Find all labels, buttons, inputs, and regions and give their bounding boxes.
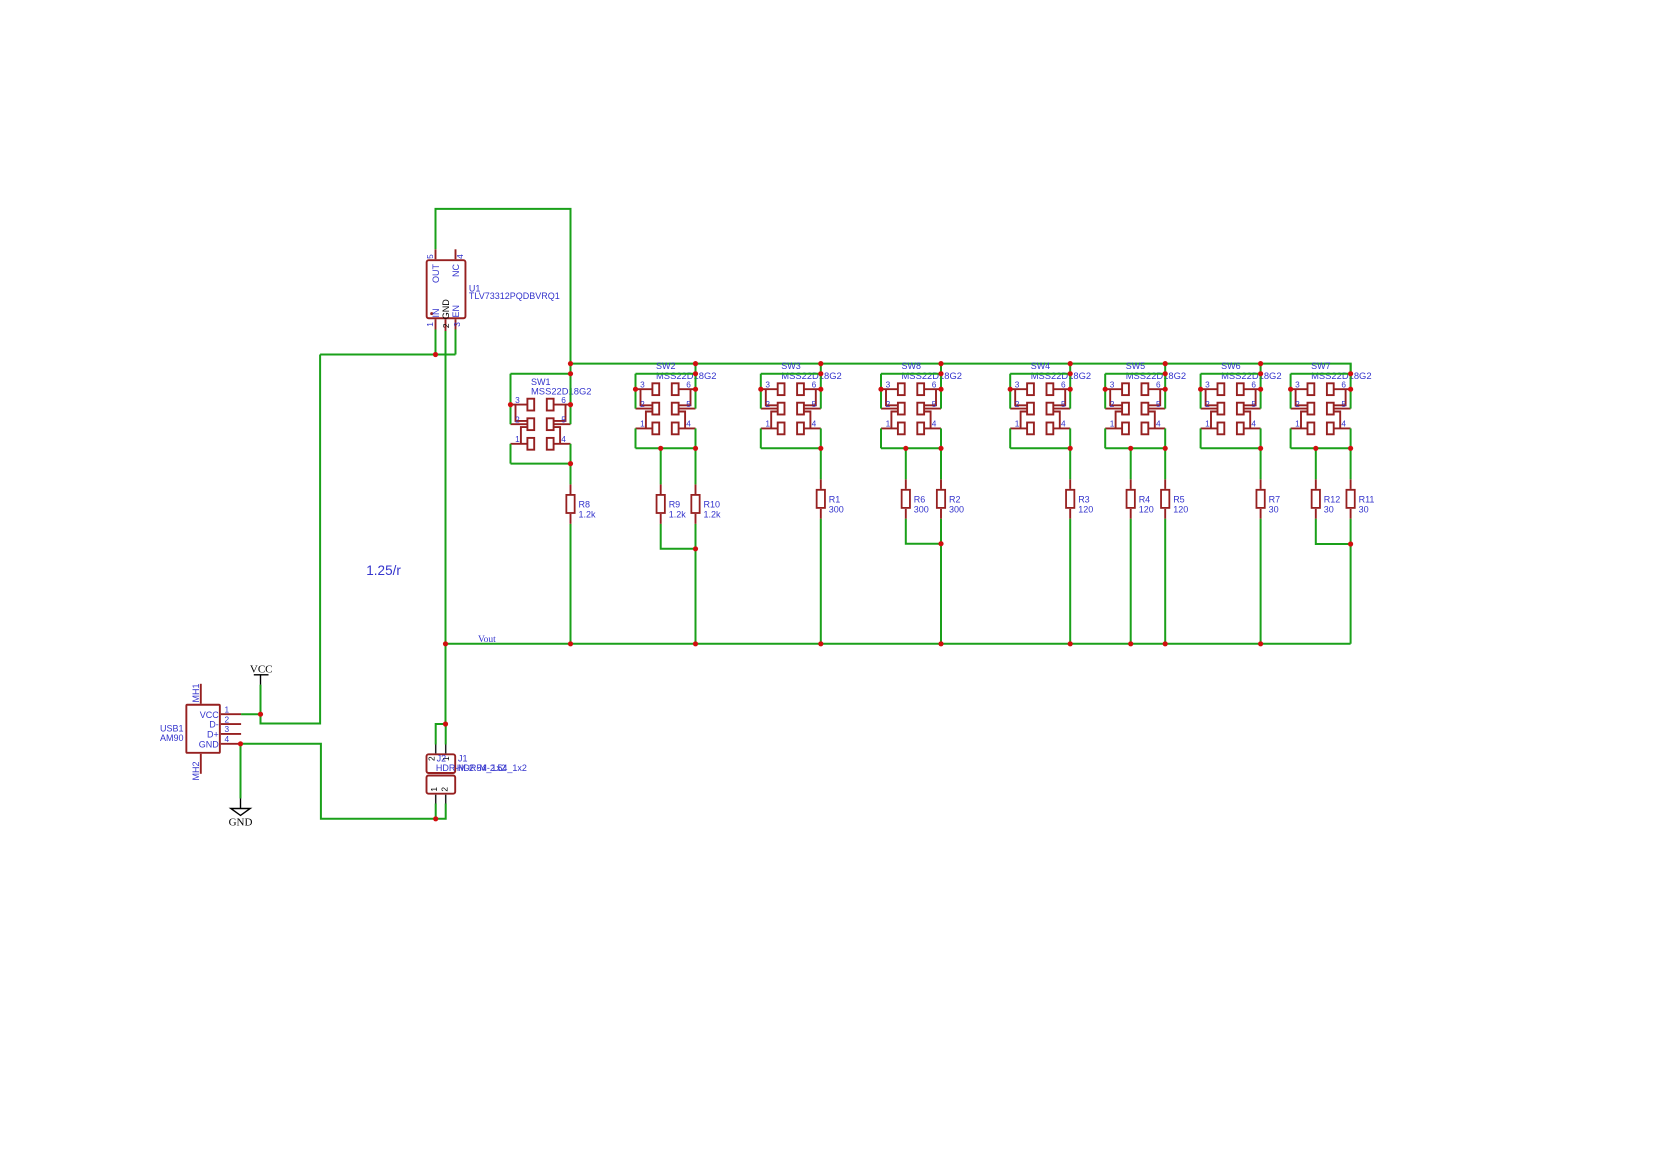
wire SW3 to R1 [820,448,822,479]
wire VCC stem [260,685,262,715]
wire SW1 right rail [570,374,572,425]
svg-text:MSS22D18G2: MSS22D18G2 [1311,370,1371,381]
junction R6-R2 [938,541,943,546]
junction Vout R5 [1163,641,1168,646]
svg-text:30: 30 [1359,504,1369,514]
junction SW6 bottom to R7 [1258,446,1263,451]
SW4 arm 5-4 [1053,412,1060,429]
junction SW8 pin3 [878,387,883,392]
SW6 pin 5 [1244,408,1261,410]
wire SW5 right rail [1164,374,1166,409]
svg-text:EN: EN [451,305,461,318]
svg-text:MH2: MH2 [191,761,201,780]
wire R9 join R10 [661,524,696,549]
svg-text:2: 2 [1205,399,1210,409]
wire SW4 bottom left [1009,428,1011,448]
U1 pin 2 (GND) [445,319,447,331]
svg-text:R10: R10 [704,500,721,510]
svg-text:VCC: VCC [250,664,273,676]
header J2 HDR-M-2.54_1x2 [426,745,506,774]
wire SW8 bottom right [940,428,942,448]
wire R5 to Vout [1164,519,1166,644]
junction bus at SW2 [693,361,698,366]
wire R12 join R11 [1316,519,1351,544]
svg-text:3: 3 [886,379,891,389]
wire J2 pin1 [445,724,447,745]
svg-text:1: 1 [1205,419,1210,429]
svg-text:1: 1 [225,704,230,714]
junction R12-R11 [1348,541,1353,546]
resistor R10 1.2k [691,484,721,524]
svg-text:MSS22D18G2: MSS22D18G2 [1221,370,1281,381]
resistor R8 1.2k [566,484,596,524]
SW8 arm 6-5 [924,389,936,405]
svg-text:J2: J2 [437,753,447,763]
svg-text:120: 120 [1139,504,1154,514]
SW1 pin 3 [511,404,528,406]
svg-text:3: 3 [1015,379,1020,389]
wire R1 to Vout [820,519,822,644]
wire U1 OUT to bus riser [436,209,571,374]
SW8 arm 5-4 [924,412,931,429]
resistor R12 30 [1312,479,1341,519]
wire SW7 bottom [1291,447,1351,449]
wire SW4 top [1010,373,1070,375]
svg-text:1.25/r: 1.25/r [366,563,401,578]
power symbol VCC [250,664,273,715]
resistor R9 1.2k [657,484,687,524]
wire USB VCC pin [241,713,260,715]
wire R8 to Vout [570,524,572,644]
junction SW5 bottom to R4 [1128,446,1133,451]
junction SW7 top right [1348,371,1353,376]
wire SW1 bottom right [570,444,572,464]
junction SW2 bottom right [693,446,698,451]
wire SW7 to R11 [1350,448,1352,479]
resistor R3 120 [1066,479,1093,519]
junction bus at SW8 [938,361,943,366]
SW2 arm 3-2 [641,389,653,405]
SW2 arm 2-1 [646,412,653,429]
svg-text:NC: NC [451,264,461,277]
junction bus at SW4 [1068,361,1073,366]
SW3 pin 6 [804,388,821,390]
svg-text:D+: D+ [207,730,219,740]
wire to GND symbol [240,744,242,799]
junction SW5 top right [1163,371,1168,376]
junction J1 bottom [433,816,438,821]
junction Vout left [443,641,448,646]
SW2 pin 5 [679,408,696,410]
wire VCC to U1 IN [261,355,321,724]
wire SW2 bottom right [695,428,697,448]
SW2 pin 1 [636,427,653,429]
wire riser to SW7 [1350,364,1352,374]
SW6 arm 6-5 [1244,389,1256,405]
wire SW2 right rail [695,374,697,409]
svg-text:4: 4 [225,734,230,744]
svg-text:5: 5 [1341,399,1346,409]
wire riser to SW5 [1164,364,1166,374]
SW5 arm 3-2 [1110,389,1122,405]
svg-text:MSS22D18G2: MSS22D18G2 [1126,370,1186,381]
svg-text:GND: GND [441,299,451,320]
wire SW7 left rail [1290,374,1292,409]
wire SW2 bottom left [635,428,637,448]
wire riser to SW1 [570,364,572,374]
SW1 pin 2 [511,423,528,425]
svg-text:Vout: Vout [478,635,496,645]
junction SW2 pin6 [693,387,698,392]
svg-text:120: 120 [1078,504,1093,514]
wire SW8 bottom [881,447,941,449]
SW2 pin 6 [679,388,696,390]
SW4 pin 6 [1053,388,1070,390]
svg-text:1.2k: 1.2k [669,509,687,519]
SW4 pin 1 [1010,427,1027,429]
SW1 arm 3-2 [516,405,528,421]
svg-text:5: 5 [561,414,566,424]
resistor R7 30 [1256,479,1280,519]
svg-text:GND: GND [199,739,220,749]
USB1 pin 3 D+ [221,733,241,735]
SW6 arm 5-4 [1244,412,1251,429]
J2 pin 1 [445,745,447,754]
SW6 arm 3-2 [1206,389,1218,405]
wire SW3 bottom left [760,428,762,448]
svg-text:R9: R9 [669,500,681,510]
junction bus at SW1 riser [568,361,573,366]
junction SW6 pin6 [1258,387,1263,392]
SW7 pin 6 [1334,388,1351,390]
junction SW4 pin3 [1008,387,1013,392]
SW7 pin 1 [1291,427,1308,429]
junction Vout R3 [1068,641,1073,646]
SW1 arm 5-4 [554,427,561,444]
SW5 pin 6 [1148,388,1165,390]
SW5 pin 3 [1105,388,1122,390]
svg-text:D-: D- [209,720,219,730]
wire OUT bus [571,364,1351,374]
wire SW7 top [1291,373,1351,375]
wire J2 pin2 jog [436,724,446,745]
svg-text:R4: R4 [1139,495,1151,505]
wire SW7 right rail [1350,374,1352,409]
resistor R11 30 [1346,479,1374,519]
svg-text:5: 5 [812,399,817,409]
svg-text:R2: R2 [949,495,961,505]
wire SW2 to R9 [660,448,662,484]
SW7 arm 5-4 [1334,412,1341,429]
SW5 pin 4 [1148,427,1165,429]
svg-text:2: 2 [886,399,891,409]
wire U1 GND down to Vout [445,331,447,644]
svg-text:GND: GND [229,816,253,828]
wire SW5 to R5 [1164,448,1166,479]
voltage regulator U1 TLV73312PQDBVRQ1 [425,249,560,331]
SW8 pin 5 [924,408,941,410]
wire SW8 right rail [940,374,942,409]
SW7 pin 5 [1334,408,1351,410]
resistor R2 300 [937,479,964,519]
svg-text:2: 2 [640,399,645,409]
USB1 pin 2 D- [221,723,241,725]
junction SW3 pin6 [818,387,823,392]
wire SW8 to R2 [940,448,942,479]
junction bus at SW6 [1258,361,1263,366]
resistor R1 300 [817,479,844,519]
junction SW3 pin3 [758,387,763,392]
svg-text:120: 120 [1173,504,1188,514]
SW4 arm 6-5 [1053,389,1065,405]
svg-text:R6: R6 [914,495,926,505]
svg-text:5: 5 [1156,399,1161,409]
svg-text:5: 5 [425,254,435,259]
SW2 pin 4 [679,427,696,429]
svg-text:MSS22D18G2: MSS22D18G2 [531,386,591,397]
SW6 pin 4 [1244,427,1261,429]
switch SW4 MSS22D18G2 [1010,361,1091,434]
wire SW1 to R8 [570,464,572,485]
SW6 pin 1 [1201,427,1218,429]
wire SW6 top [1201,373,1261,375]
junction Vout R4 [1128,641,1133,646]
wire SW4 to R3 [1069,448,1071,479]
svg-text:MSS22D18G2: MSS22D18G2 [1031,370,1091,381]
wire SW5 bottom right [1164,428,1166,448]
SW7 arm 2-1 [1301,412,1308,429]
junction SW3 bottom to R1 [818,446,823,451]
svg-text:30: 30 [1324,504,1334,514]
junction SW8 top right [938,371,943,376]
junction SW3 top right [818,371,823,376]
svg-text:2: 2 [441,323,451,328]
junction Vout R1 [818,641,823,646]
SW2 arm 5-4 [679,412,686,429]
svg-text:TLV73312PQDBVRQ1: TLV73312PQDBVRQ1 [469,291,560,301]
USB1 pin MH2 [200,754,202,774]
wire riser to SW2 [695,364,697,374]
svg-text:3: 3 [515,395,520,405]
svg-text:1: 1 [1110,419,1115,429]
svg-text:3: 3 [452,322,462,327]
power symbol GND [229,799,253,829]
svg-text:3: 3 [765,379,770,389]
junction SW2 bottom to R9 [658,446,663,451]
USB1 pin 1 VCC [221,713,241,715]
wire R2 to Vout [940,519,942,644]
junction SW6 pin3 [1198,387,1203,392]
svg-text:1: 1 [429,787,439,792]
svg-text:4: 4 [1156,419,1161,429]
wire SW3 right rail [820,374,822,409]
SW4 arm 2-1 [1021,412,1028,429]
SW6 pin 2 [1201,408,1218,410]
wire IN-EN tie [320,354,455,356]
svg-text:1.2k: 1.2k [704,509,722,519]
U1 pin-1 indicator dot [430,312,433,315]
svg-text:1: 1 [425,322,435,327]
wire SW1 top [511,373,571,375]
svg-text:2: 2 [1015,399,1020,409]
svg-text:3: 3 [1205,379,1210,389]
SW7 pin 4 [1334,427,1351,429]
SW2 pin 2 [636,408,653,410]
SW1 pin 5 [554,423,571,425]
wire SW1 left rail [510,374,512,425]
USB connector USB1 AM90 [160,683,241,780]
switch SW6 MSS22D18G2 [1201,361,1282,434]
svg-text:USB1: USB1 [160,724,184,734]
junction bus at SW5 [1163,361,1168,366]
wire riser to SW3 [820,364,822,374]
USB1 pin MH1 [200,684,202,704]
SW7 arm 3-2 [1296,389,1308,405]
junction SW7 bottom right [1348,446,1353,451]
svg-text:300: 300 [829,504,844,514]
svg-text:2: 2 [426,756,436,761]
wire R10 to Vout [695,524,697,644]
SW3 pin 2 [761,408,778,410]
junction SW7 pin6 [1348,387,1353,392]
svg-text:R8: R8 [579,500,591,510]
J1 pin 1 [435,795,437,804]
wire R7 to Vout [1260,519,1262,644]
SW4 pin 2 [1010,408,1027,410]
wire R11 to Vout corner [1350,519,1352,644]
wire J1 pin1 up [435,804,437,819]
svg-text:3: 3 [1295,379,1300,389]
SW3 arm 5-4 [804,412,811,429]
SW5 arm 6-5 [1148,389,1160,405]
junction SW2 pin3 [633,387,638,392]
switch SW7 MSS22D18G2 [1291,361,1372,434]
J2 pin 2 [435,745,437,754]
SW1 pin 6 [554,404,571,406]
svg-text:1: 1 [886,419,891,429]
svg-text:2: 2 [225,714,230,724]
wire USB GND to J1 [241,744,436,819]
SW6 pin 3 [1201,388,1218,390]
wire SW5 bottom left [1104,428,1106,448]
svg-text:OUT: OUT [431,264,441,284]
wire SW5 bottom [1105,447,1165,449]
svg-text:VCC: VCC [200,710,220,720]
wire SW6 right rail [1260,374,1262,409]
svg-text:4: 4 [561,434,566,444]
wire SW1 bottom left [510,444,512,464]
junction SW2 top right [693,371,698,376]
wire U1 EN down [455,330,457,355]
wire SW8 left rail [880,374,882,409]
svg-text:2: 2 [515,414,520,424]
svg-text:MSS22D18G2: MSS22D18G2 [902,370,962,381]
junction SW1 pin6 [568,402,573,407]
SW3 pin 3 [761,388,778,390]
svg-text:2: 2 [765,399,770,409]
svg-text:1: 1 [1295,419,1300,429]
SW2 pin 3 [636,388,653,390]
wire R6 join R2 [906,519,941,544]
SW4 pin 5 [1053,408,1070,410]
switch SW1 MSS22D18G2 [511,377,592,450]
wire SW4 bottom right [1069,428,1071,448]
junction SW4 pin6 [1068,387,1073,392]
wire Vout to J2 [445,644,447,724]
junction SW7 bottom to R12 [1313,446,1318,451]
svg-text:5: 5 [932,399,937,409]
wire J1 pin2 up [436,804,446,819]
SW8 arm 2-1 [891,412,898,429]
SW6 pin 6 [1244,388,1261,390]
SW8 pin 1 [881,427,898,429]
wire SW4 right rail [1069,374,1071,409]
junction GND [238,741,243,746]
wire SW3 bottom [761,447,821,449]
SW8 pin 3 [881,388,898,390]
SW7 pin 3 [1291,388,1308,390]
resistor R5 120 [1161,479,1188,519]
wire SW2 bottom [636,447,696,449]
SW8 pin 4 [924,427,941,429]
U1 pin 1 (IN) [435,319,437,329]
junction R9-R10 [693,546,698,551]
USB1 pin 4 GND [221,743,241,745]
svg-text:1.2k: 1.2k [579,509,597,519]
svg-text:IN: IN [431,309,441,318]
svg-text:3: 3 [1110,379,1115,389]
svg-text:4: 4 [1061,419,1066,429]
wire riser to SW8 [940,364,942,374]
svg-text:1: 1 [515,434,520,444]
SW7 arm 6-5 [1334,389,1346,405]
wire SW6 bottom left [1200,428,1202,448]
svg-text:J1: J1 [458,753,468,763]
wire U1 IN down [435,330,437,355]
SW5 pin 1 [1105,427,1122,429]
svg-text:1: 1 [1015,419,1020,429]
svg-text:MSS22D18G2: MSS22D18G2 [781,370,841,381]
svg-text:2: 2 [1110,399,1115,409]
junction SW5 bottom right [1163,446,1168,451]
wire SW7 bottom right [1350,428,1352,448]
wire SW2 left rail [635,374,637,409]
switch SW2 MSS22D18G2 [636,361,717,434]
wire riser to SW4 [1069,364,1071,374]
wire SW6 bottom [1201,447,1261,449]
svg-text:R5: R5 [1173,495,1185,505]
junction bus at SW3 [818,361,823,366]
svg-text:5: 5 [1061,399,1066,409]
wire SW5 left rail [1104,374,1106,409]
SW8 pin 6 [924,388,941,390]
svg-text:300: 300 [949,504,964,514]
junction Vout R10 [693,641,698,646]
wire SW5 top [1105,373,1165,375]
svg-text:2: 2 [1295,399,1300,409]
wire SW2 to R10 [695,448,697,484]
header J1 HDR-M-2.54_1x2 [427,753,527,803]
junction SW4 bottom to R3 [1068,446,1073,451]
wire SW7 to R12 [1315,448,1317,479]
junction Vout R2 [938,641,943,646]
wire SW8 to R6 [905,448,907,479]
SW3 pin 1 [761,427,778,429]
junction Vout R8 [568,641,573,646]
SW4 pin 4 [1053,427,1070,429]
svg-text:MSS22D18G2: MSS22D18G2 [656,370,716,381]
wire riser to SW6 [1260,364,1262,374]
